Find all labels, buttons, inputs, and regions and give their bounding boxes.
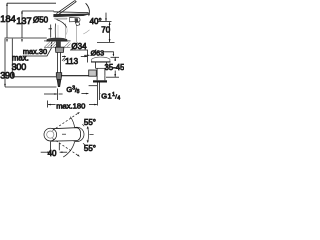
svg-text:max.180: max.180 bbox=[56, 101, 85, 110]
deck cross-section right bbox=[67, 40, 70, 42]
deck cross-section left bbox=[44, 40, 47, 42]
node 390 dimension line bbox=[4, 39, 6, 87]
pop-up waste mid body bbox=[96, 68, 98, 75]
hose cone end bbox=[57, 80, 61, 87]
faucet body column bbox=[54, 24, 56, 38]
node G3/8 arrow bbox=[44, 93, 57, 95]
svg-text:Ø63: Ø63 bbox=[91, 49, 105, 58]
wire: hose end extension bbox=[57, 89, 59, 101]
wire: deck extension line left bbox=[5, 37, 47, 39]
svg-text:70: 70 bbox=[101, 25, 110, 34]
node 184 dimension line bbox=[6, 3, 8, 38]
supply hoses bbox=[56, 53, 58, 73]
svg-text:184: 184 bbox=[0, 14, 15, 25]
wire: 390 hose reference line bbox=[5, 86, 57, 88]
faucet lever (raised position) bbox=[56, 1, 74, 14]
wire: waste reference tick bbox=[89, 85, 98, 87]
faucet shank through deck bbox=[56, 41, 61, 47]
wire: Ø63 right leader bbox=[103, 52, 113, 56]
node max.180 dimension bbox=[47, 101, 49, 108]
wire: Ø50 leader bbox=[49, 25, 53, 38]
aerator ball bbox=[75, 18, 79, 22]
aerator outlet bbox=[76, 22, 80, 26]
top-view body circle bbox=[70, 127, 84, 141]
rod knob bbox=[89, 70, 97, 76]
wire: deck reference right bbox=[97, 41, 115, 43]
pop-up rod bbox=[61, 75, 89, 77]
40deg swing arc bbox=[86, 3, 90, 15]
top-view knob bbox=[44, 128, 57, 141]
top-view lever capsule bbox=[50, 128, 80, 142]
svg-text:35-45: 35-45 bbox=[105, 63, 125, 72]
aerator extension line bbox=[76, 23, 78, 43]
upper 55 arc bbox=[70, 117, 74, 128]
node max300 dimension line bbox=[11, 39, 13, 77]
faucet lever (horizontal position) bbox=[54, 11, 89, 14]
svg-text:113: 113 bbox=[65, 57, 78, 66]
wire: Ø34 underline leader bbox=[70, 50, 88, 63]
waste tail pipe bbox=[96, 76, 98, 81]
svg-text:390: 390 bbox=[0, 70, 15, 80]
lower swing dashed line bbox=[53, 139, 79, 156]
center tick bbox=[62, 133, 66, 135]
upper swing dashed line bbox=[53, 113, 79, 131]
wire: 137 reference line bbox=[22, 10, 54, 12]
wire: lever-top reference line bbox=[98, 21, 112, 23]
wire: 300 hose reference line bbox=[12, 76, 56, 78]
pop-up waste flange bbox=[92, 57, 110, 62]
wire: max30 leader bbox=[23, 48, 52, 56]
svg-text:55°: 55° bbox=[84, 144, 96, 153]
svg-text:137: 137 bbox=[16, 16, 31, 27]
wire: waste pipe extensions bbox=[96, 82, 98, 105]
pop-up waste upper body bbox=[94, 62, 96, 68]
svg-text:Ø50: Ø50 bbox=[33, 16, 49, 25]
faucet shoulder curve bbox=[57, 20, 67, 28]
wire: 184 reference top line bbox=[7, 2, 56, 4]
node 35-45 dimension bbox=[111, 56, 120, 58]
svg-text:40: 40 bbox=[48, 149, 57, 158]
hose stub ticks bbox=[62, 58, 65, 61]
node 40 dimension bbox=[50, 142, 52, 150]
wire: Ø63 left arrow bbox=[84, 54, 89, 56]
large angle arc with arrows bbox=[87, 127, 90, 142]
hose coupling bbox=[56, 73, 61, 80]
node 137 dimension line bbox=[21, 11, 23, 38]
lower 55 arc bbox=[63, 142, 74, 157]
spout trajectory mark bbox=[83, 30, 89, 34]
mounting nut bbox=[55, 47, 64, 52]
spout block bbox=[70, 18, 81, 22]
faucet base flare bbox=[47, 38, 67, 41]
node 113 dimension arrows bbox=[62, 55, 66, 57]
svg-text:55°: 55° bbox=[84, 118, 96, 127]
svg-text:max.: max. bbox=[12, 53, 29, 62]
node 70 dimension line bbox=[109, 22, 111, 42]
faucet cartridge ring bbox=[55, 18, 67, 19]
node G1 1/4 arrow bbox=[81, 93, 88, 95]
wire: 40deg arrow to lever line bbox=[105, 13, 107, 21]
